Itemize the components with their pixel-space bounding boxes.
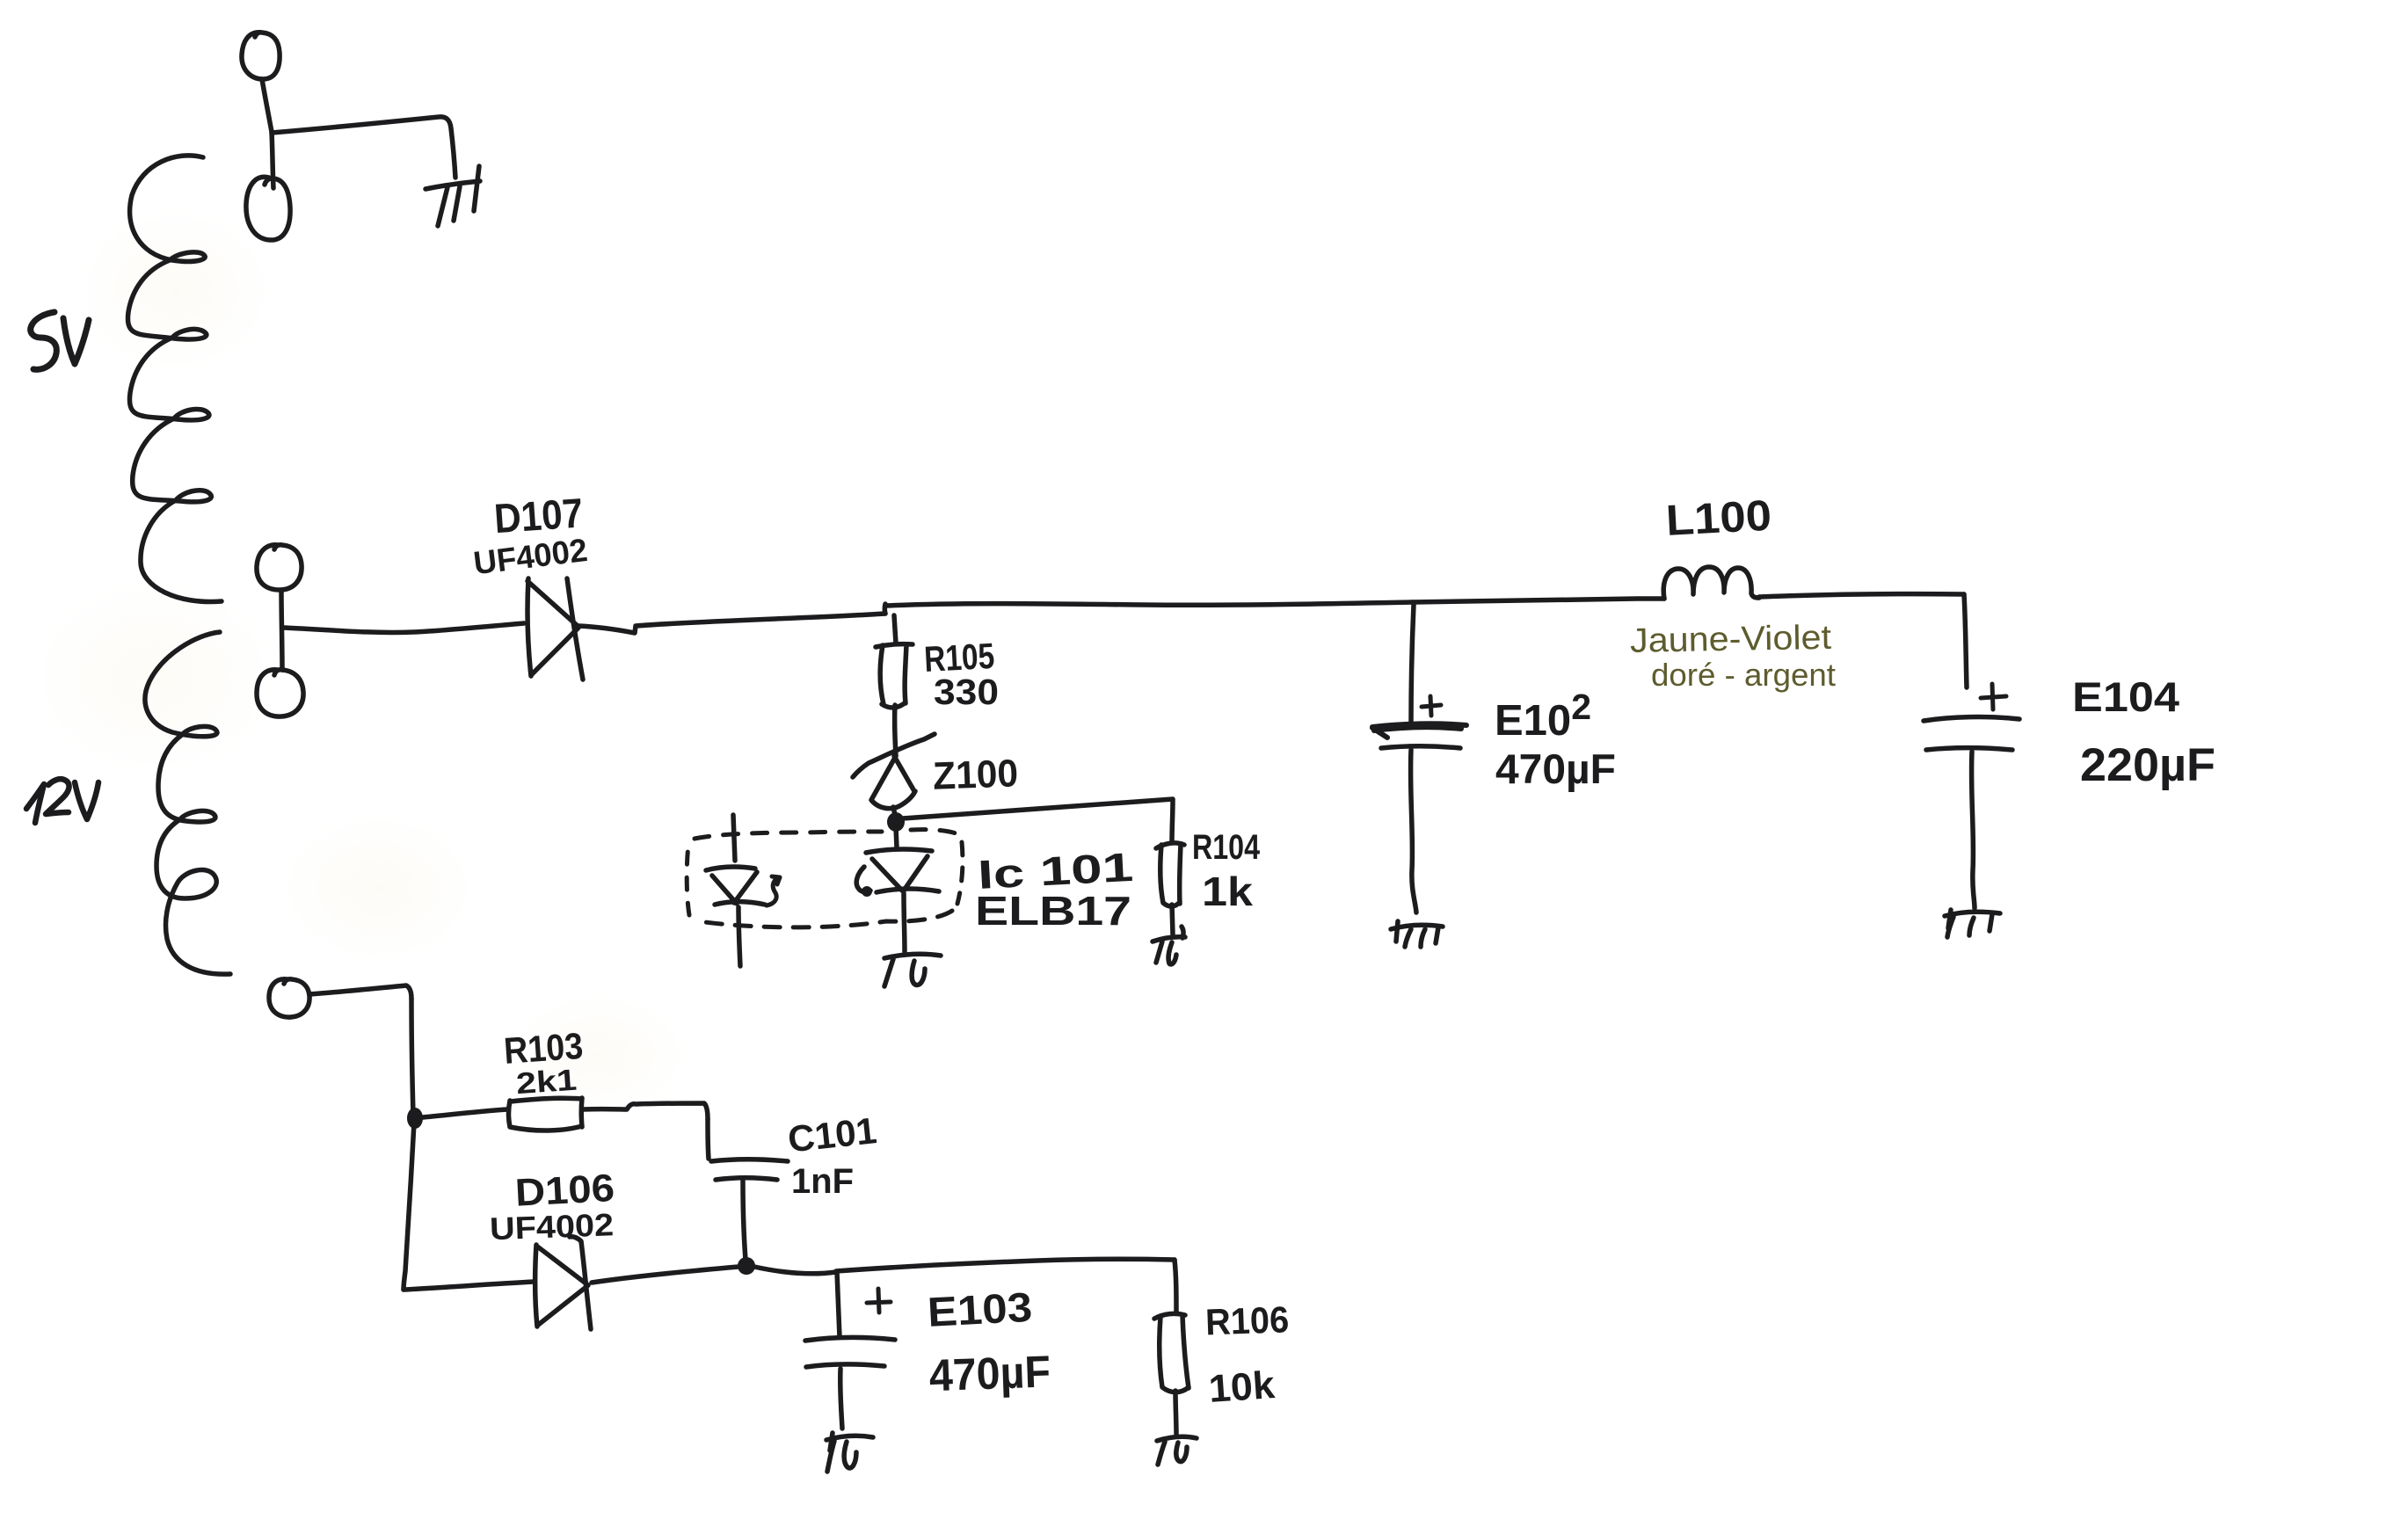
label 12V: [26, 779, 98, 823]
node junction C101 bottom: [738, 1257, 755, 1275]
ground below opto: [884, 954, 941, 986]
capacitor E104 plate top: [1924, 717, 2019, 721]
wire between mid pads: [281, 590, 282, 670]
resistor R105 lead bottom: [895, 705, 896, 756]
resistor R103 body: [509, 1098, 583, 1131]
plus sign E104: [1981, 684, 2006, 709]
diode D106 cathode bar: [570, 1237, 591, 1329]
inductor L100: [1663, 567, 1759, 599]
wire corner down to C101: [708, 1119, 709, 1159]
ground below E104: [1945, 910, 2000, 937]
resistor R106 lead bottom: [1175, 1391, 1176, 1434]
wire R103 to C101 corner: [583, 1103, 708, 1119]
wire to D106 anode: [404, 1282, 534, 1290]
opto LED anode bar: [706, 867, 755, 870]
svg-text:220µF: 220µF: [2080, 739, 2215, 791]
resistor R106 body: [1154, 1313, 1189, 1392]
opto LED lead top: [733, 815, 735, 861]
wire node to E103 tap: [754, 1267, 836, 1274]
plus sign E103: [867, 1289, 891, 1312]
wire E102 to ground: [1411, 750, 1416, 912]
zener Z100 cathode bar: [853, 734, 935, 777]
opto LED cathode bar: [715, 902, 765, 905]
ground below R104: [1153, 927, 1185, 964]
optocoupler IC101 dashed box: [695, 830, 958, 839]
svg-text:R104: R104: [1192, 828, 1261, 867]
svg-text:1k: 1k: [1202, 869, 1253, 914]
resistor R104 lead top: [1172, 800, 1173, 842]
svg-text:470µF: 470µF: [1495, 745, 1616, 792]
resistor R104 lead bottom: [1172, 905, 1173, 934]
resistor R104 body: [1156, 843, 1184, 906]
main rail wire to E102 node: [885, 602, 1413, 606]
wire D106 to node: [592, 1267, 738, 1283]
wire E104 corner down: [1964, 594, 1967, 687]
diode D107 triangle: [527, 578, 578, 676]
diode D106 triangle: [535, 1245, 588, 1327]
wire junction to ground: [272, 117, 455, 178]
svg-text:Jaune-Violet: Jaune-Violet: [1630, 619, 1832, 660]
opto triac top bar: [866, 849, 932, 853]
wire L100 to E104 corner: [1759, 594, 1964, 597]
terminal pad bottom winding: [269, 979, 309, 1017]
svg-text:10k: 10k: [1207, 1363, 1277, 1411]
zener Z100 triangle: [871, 756, 915, 809]
capacitor E102 plate top: [1372, 723, 1466, 738]
wire zener node to R104: [903, 799, 1173, 818]
capacitor E103 plate bottom: [806, 1364, 884, 1367]
wire E103 to ground: [840, 1369, 842, 1429]
resistor R105 lead top: [894, 615, 896, 643]
opto triac input squiggle: [856, 867, 870, 892]
wire R106 corner down: [1175, 1260, 1176, 1312]
wire corner down to R103 node: [411, 999, 413, 1115]
svg-text:470µF: 470µF: [928, 1346, 1051, 1400]
opto triac lead top: [896, 827, 897, 847]
terminal pad top: [242, 33, 280, 79]
svg-text:2k1: 2k1: [515, 1064, 578, 1101]
wire C101 down to node: [743, 1181, 746, 1260]
label 5V: [31, 312, 89, 369]
opto LED light arrow: [767, 876, 780, 905]
terminal pad mid lower: [257, 670, 303, 716]
opto LED lead bottom: [738, 907, 740, 966]
wire terminal to tap junction: [262, 79, 273, 188]
svg-text:E104: E104: [2072, 673, 2179, 720]
svg-text:Z100: Z100: [932, 752, 1019, 797]
capacitor E103 plate top: [805, 1337, 895, 1341]
svg-text:ELB17: ELB17: [975, 888, 1131, 934]
node junction R103 tap: [407, 1108, 423, 1129]
terminal pad second: [246, 177, 290, 240]
resistor R103 lead left: [423, 1109, 507, 1117]
ground below E102: [1391, 921, 1443, 947]
wire tap to diode anode: [283, 623, 524, 632]
wire E104 to ground: [1972, 752, 1975, 908]
opto triac triangle: [872, 856, 928, 891]
wire node down to D106 level: [404, 1123, 414, 1290]
svg-text:UF4002: UF4002: [489, 1206, 614, 1247]
terminal pad mid upper: [257, 545, 302, 590]
wire E103 tap to R106 corner: [836, 1259, 1175, 1271]
transformer winding 5V: [127, 156, 222, 602]
plus sign E102: [1422, 696, 1441, 716]
svg-text:doré - argent: doré - argent: [1651, 657, 1836, 693]
ground below E103: [826, 1433, 873, 1472]
capacitor E102 plate bottom: [1381, 746, 1460, 748]
svg-text:330: 330: [934, 672, 999, 712]
ground below R106: [1157, 1436, 1197, 1465]
opto LED triangle: [712, 872, 757, 904]
node junction below zener: [893, 807, 895, 815]
wire diode to R105 node: [578, 614, 885, 633]
wire E103 lead down: [837, 1272, 840, 1337]
opto triac lead bottom: [904, 893, 905, 952]
capacitor C101 plate bottom: [716, 1178, 777, 1180]
ground symbol top: [426, 166, 480, 226]
transformer winding 12V: [145, 632, 230, 974]
svg-text:1nF: 1nF: [791, 1162, 854, 1201]
svg-text:R106: R106: [1204, 1298, 1290, 1342]
capacitor E104 plate bottom: [1926, 748, 2012, 750]
diode D107 cathode bar: [567, 578, 583, 680]
node stub at R105: [883, 604, 888, 614]
svg-text:L100: L100: [1665, 492, 1773, 545]
wire E102 node down: [1411, 605, 1414, 723]
main rail wire to L100: [1413, 599, 1664, 602]
capacitor C101 plate top: [711, 1160, 788, 1161]
wire bottom pad to corner: [309, 985, 411, 999]
opto triac bottom bar: [877, 889, 939, 892]
resistor R105 body: [876, 644, 913, 708]
svg-text:E103: E103: [927, 1283, 1034, 1335]
